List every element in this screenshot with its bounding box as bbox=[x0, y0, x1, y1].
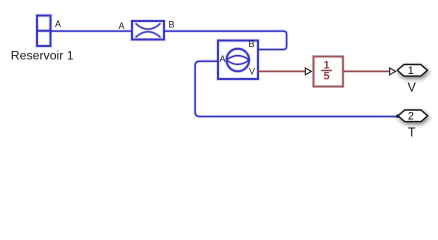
svg-text:5: 5 bbox=[323, 71, 329, 83]
outport block 2 bbox=[398, 110, 428, 122]
svg-text:V: V bbox=[408, 80, 417, 94]
svg-text:1: 1 bbox=[408, 65, 414, 77]
svg-text:Reservoir 1: Reservoir 1 bbox=[11, 49, 74, 63]
reservoir block Reservoir 1 bbox=[37, 16, 51, 47]
svg-text:A: A bbox=[220, 54, 226, 64]
connection dot at outport T bbox=[396, 115, 399, 118]
svg-text:1: 1 bbox=[323, 59, 329, 71]
wire restriction B to sensor B bbox=[164, 31, 287, 49]
gain block 1/5 bbox=[314, 57, 344, 87]
wire reservoir A to restriction A bbox=[51, 30, 133, 33]
wire sensor A to outport T bbox=[195, 61, 396, 116]
svg-text:2: 2 bbox=[408, 110, 414, 122]
svg-text:T: T bbox=[408, 126, 416, 140]
physical signal wire gain to outport V bbox=[343, 70, 390, 73]
svg-text:B: B bbox=[249, 39, 255, 49]
svg-text:B: B bbox=[169, 20, 175, 30]
arrowhead into gain bbox=[305, 68, 311, 75]
arrowhead into outport V bbox=[390, 68, 396, 75]
flow rate sensor block bbox=[218, 41, 258, 80]
outport block 1 bbox=[397, 65, 427, 77]
physical signal wire sensor V to gain bbox=[258, 70, 306, 73]
local restriction block bbox=[132, 21, 164, 40]
svg-text:V: V bbox=[249, 67, 255, 77]
svg-text:A: A bbox=[119, 21, 125, 31]
svg-text:A: A bbox=[55, 19, 61, 29]
